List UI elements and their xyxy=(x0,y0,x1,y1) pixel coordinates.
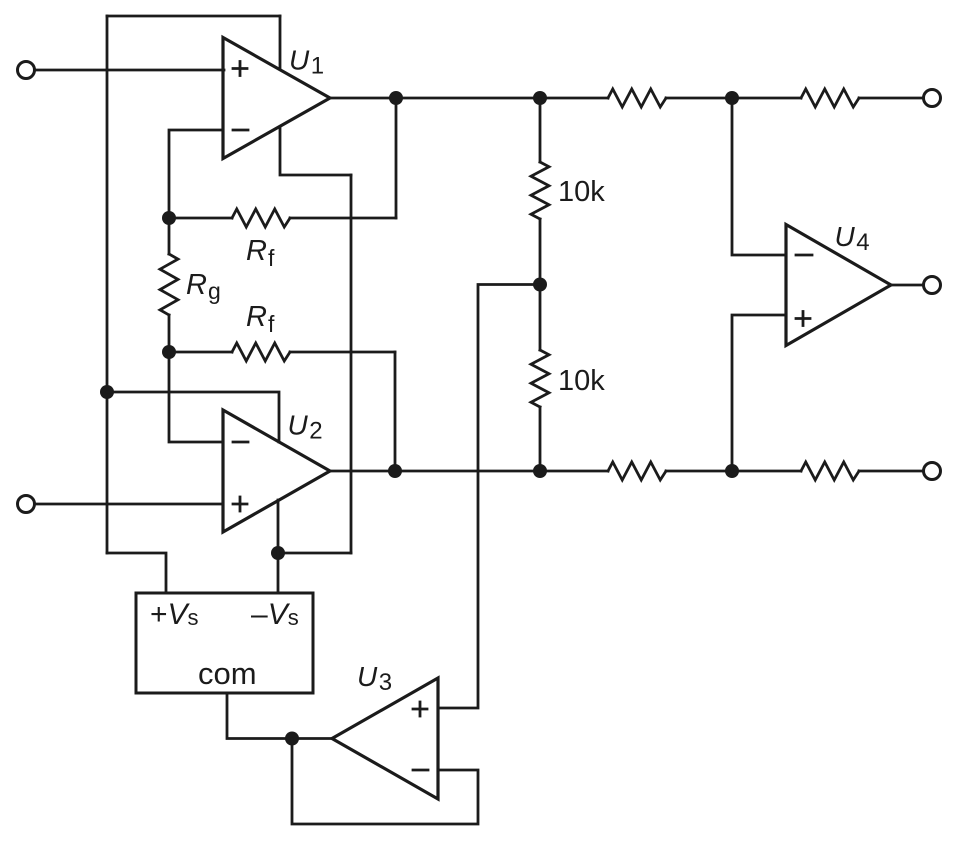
svg-text:10k: 10k xyxy=(558,176,605,208)
node Rf2 left junction xyxy=(162,345,176,359)
resistor Rf2 xyxy=(169,343,395,361)
wire -Vs from U1 bottom edge xyxy=(280,127,351,175)
svg-text:U3: U3 xyxy=(357,661,392,696)
wire -Vs right vertical xyxy=(350,175,353,553)
node bottom 10k junction xyxy=(533,464,547,478)
pin + of U2 xyxy=(233,497,247,511)
node U2 output junction xyxy=(388,464,402,478)
wire -Vs to U2 bottom edge and supply box xyxy=(277,500,280,593)
wire input1 to U1 noninverting input xyxy=(35,69,225,72)
wire U3 output to com xyxy=(227,693,332,739)
wire +Vs top rail horizontal xyxy=(107,15,280,18)
power supply box xyxy=(136,593,313,693)
op-amp U1 xyxy=(223,38,330,159)
node U3 feedback junction xyxy=(285,732,299,746)
node +Vs branch junction xyxy=(100,385,114,399)
svg-text:Rg: Rg xyxy=(186,269,221,304)
node -Vs junction xyxy=(271,546,285,560)
svg-text:+Vs: +Vs xyxy=(150,598,199,631)
svg-text:10k: 10k xyxy=(558,365,605,397)
svg-text:–Vs: –Vs xyxy=(251,598,299,631)
wire -Vs horizontal to node xyxy=(278,552,351,555)
op-amp U4 xyxy=(786,225,891,346)
output terminal top xyxy=(924,90,941,107)
resistor R bottom2 xyxy=(801,462,859,480)
node Rf1 left junction xyxy=(162,211,176,225)
wire xyxy=(859,97,923,100)
node top 10k junction xyxy=(533,91,547,105)
wire U1 output line xyxy=(330,97,608,100)
wire Rf2 to U2 output node xyxy=(394,352,397,471)
wire U4 output xyxy=(891,284,923,287)
output terminal bottom xyxy=(924,463,941,480)
pin - of U4 xyxy=(796,254,812,257)
resistor Rg xyxy=(160,254,178,315)
pin + of U4 xyxy=(796,312,810,326)
wire Rg leads xyxy=(168,218,171,254)
resistor 10k upper xyxy=(531,98,549,285)
pin - of U1 xyxy=(233,129,248,132)
pin + of U3 xyxy=(413,702,427,716)
resistor R top1 xyxy=(608,89,666,107)
wire +Vs drop to U1 top edge xyxy=(279,16,282,69)
output terminal U4 xyxy=(924,277,941,294)
resistor R top2 xyxy=(801,89,859,107)
node U4 inverting junction xyxy=(725,91,739,105)
svg-text:com: com xyxy=(198,656,257,691)
resistor R bottom1 xyxy=(608,462,666,480)
op-amp U3 xyxy=(332,678,438,799)
pin - of U3 xyxy=(413,769,428,772)
wire xyxy=(666,97,801,100)
wire U2 inverting input xyxy=(169,352,223,442)
wire Rf1 to U1 output node xyxy=(395,98,398,218)
wire U1 inverting input xyxy=(169,130,223,218)
wire U3 inverting feedback xyxy=(292,739,478,825)
node U1 output junction xyxy=(389,91,403,105)
wire U2 output line xyxy=(330,470,608,473)
input terminal J2 xyxy=(18,496,35,513)
pin + of U1 xyxy=(233,62,247,76)
wire +Vs left vertical xyxy=(106,16,109,553)
wire U4 inverting input xyxy=(732,98,786,255)
wire +Vs branch to U2 xyxy=(107,392,279,442)
wire U4 noninverting input xyxy=(732,315,786,471)
node U4 noninverting junction xyxy=(725,464,739,478)
pin - of U2 xyxy=(233,441,248,444)
svg-text:U1: U1 xyxy=(289,45,324,80)
wire xyxy=(666,470,801,473)
wire mid node to U3 xyxy=(438,285,540,709)
svg-text:Rf: Rf xyxy=(246,301,275,337)
resistor 10k lower xyxy=(531,285,549,472)
input terminal J1 xyxy=(18,62,35,79)
resistor Rf1 xyxy=(169,209,396,227)
op-amp U2 xyxy=(223,410,330,532)
node mid divider junction xyxy=(533,278,547,292)
svg-text:Rf: Rf xyxy=(246,235,275,271)
wire xyxy=(859,470,923,473)
wire +Vs into supply box xyxy=(107,553,166,593)
svg-text:U2: U2 xyxy=(288,410,323,445)
wire input2 to U2 noninverting input xyxy=(35,503,224,506)
svg-text:U4: U4 xyxy=(835,221,870,256)
